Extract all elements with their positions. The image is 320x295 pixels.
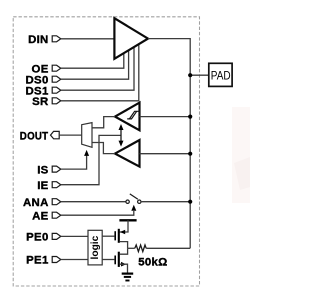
svg-text:DIN: DIN bbox=[28, 34, 49, 46]
svg-text:IS: IS bbox=[37, 164, 48, 176]
ground bbox=[122, 274, 134, 281]
wire ANA to switch bbox=[61, 201, 126, 203]
wire IE to buffer-enable arrow bbox=[61, 135, 121, 184]
svg-text:DOUT: DOUT bbox=[20, 130, 49, 142]
junction dot ANA branch bbox=[188, 200, 192, 204]
wire mid node to NMOS drain bbox=[120, 248, 128, 254]
wire mid node to resistor bbox=[128, 247, 135, 249]
plain input buffer bbox=[115, 140, 140, 167]
output buffer (driver) bbox=[114, 18, 148, 59]
port PE1 bbox=[26, 255, 61, 267]
svg-text:SR: SR bbox=[32, 96, 48, 108]
wire plain buffer input from bus bbox=[140, 153, 191, 155]
PAD terminal box bbox=[209, 63, 232, 86]
port ANA bbox=[23, 197, 61, 209]
svg-text:PAD: PAD bbox=[211, 68, 231, 82]
pull-down NMOS bbox=[102, 252, 126, 267]
port AE bbox=[32, 210, 61, 222]
port IE bbox=[37, 180, 61, 192]
port IS bbox=[37, 164, 61, 176]
wire PE1 to logic bbox=[61, 259, 88, 261]
junction dot schmitt branch bbox=[188, 115, 192, 119]
wire OE to buffer bottom bbox=[61, 53, 124, 68]
cell boundary (dashed) bbox=[13, 17, 199, 286]
wire DIN to buffer bbox=[61, 38, 115, 40]
port OE bbox=[32, 63, 61, 75]
wire schmitt output to mux bbox=[92, 117, 115, 128]
wire NMOS source to ground bbox=[120, 264, 128, 273]
wire resistor to bus bbox=[146, 247, 190, 249]
svg-text:PE0: PE0 bbox=[26, 232, 48, 244]
wire IS select arrow into mux bbox=[61, 150, 89, 169]
analog switch bbox=[126, 194, 141, 204]
port DS0 bbox=[26, 74, 61, 86]
junction dot plain buffer branch bbox=[188, 152, 192, 156]
svg-text:50kΩ: 50kΩ bbox=[138, 256, 167, 268]
svg-text:ANA: ANA bbox=[23, 197, 49, 209]
wire buffer output to bus bbox=[148, 39, 190, 76]
wire bus to PAD bbox=[190, 74, 209, 76]
mux (input select) bbox=[82, 123, 92, 148]
svg-text:IE: IE bbox=[37, 180, 48, 192]
faint artifact wedge (background tint) bbox=[232, 107, 250, 203]
port DOUT bbox=[20, 130, 59, 142]
port DIN bbox=[28, 34, 61, 46]
wire plain buffer output to mux bbox=[92, 143, 115, 154]
svg-text:logic: logic bbox=[90, 235, 101, 259]
enable double arrow between buffers bbox=[119, 124, 124, 147]
svg-text:AE: AE bbox=[32, 210, 49, 222]
wire PMOS drain to mid node bbox=[120, 242, 128, 249]
pull-up PMOS bbox=[102, 229, 125, 243]
supply rail bar bbox=[119, 219, 136, 221]
wire mux output to DOUT bbox=[59, 134, 81, 136]
port DS1 bbox=[26, 85, 61, 97]
wire DS0 to buffer bottom bbox=[61, 50, 129, 79]
wire AE control arrow to switch bbox=[61, 205, 137, 215]
wire SR to buffer bottom bbox=[61, 44, 139, 101]
wire PE0 to logic bbox=[61, 235, 88, 237]
port PE0 bbox=[26, 232, 61, 244]
wire supply to PMOS source bbox=[120, 220, 128, 232]
bus (PAD net vertical) bbox=[189, 75, 191, 248]
svg-text:PE1: PE1 bbox=[26, 255, 49, 267]
hysteresis symbol bbox=[127, 111, 137, 119]
schmitt input buffer bbox=[115, 103, 140, 131]
wire schmitt input from bus bbox=[140, 116, 191, 118]
wire DS1 to buffer bottom bbox=[61, 47, 134, 90]
junction dot at PAD branch bbox=[188, 73, 192, 77]
resistor 50k bbox=[135, 245, 168, 268]
wire switch to bus bbox=[141, 201, 190, 203]
logic block bbox=[88, 230, 102, 265]
port SR bbox=[32, 96, 61, 108]
